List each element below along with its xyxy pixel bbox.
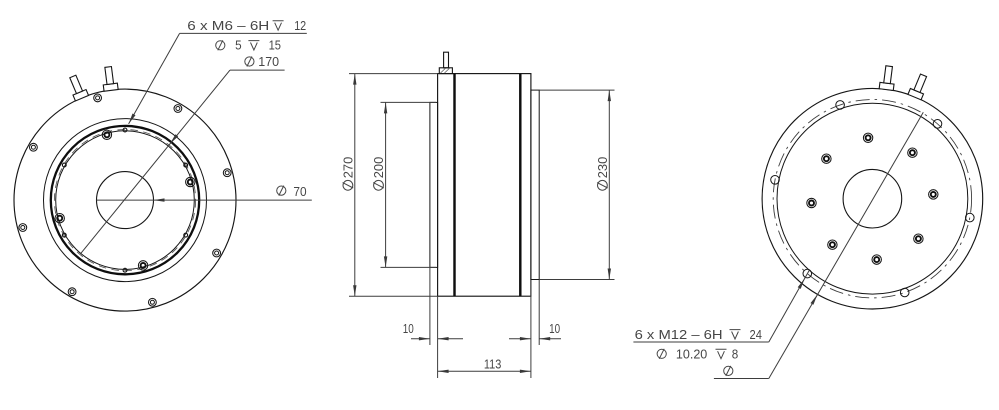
svg-text:10.20: 10.20 [676,346,707,361]
svg-text:5: 5 [235,38,242,53]
left view dashed bolt circle dia 170 [54,130,195,271]
left view stud pin 2 [101,66,118,91]
left view 4 socket head screws [186,177,195,186]
dia230 label [595,157,610,191]
right view outer circle [762,88,983,309]
right view stud pin 2 [908,73,930,100]
svg-text:24: 24 [750,327,762,342]
label dia 170 [245,57,254,66]
dim 113 [438,370,531,372]
right view inner rim circle [777,103,968,294]
svg-text:8: 8 [732,346,739,361]
dia200 label [371,157,386,191]
right view dash-dot bolt circle [773,100,971,298]
svg-text:10: 10 [403,321,414,336]
dim 10 left [429,267,431,345]
leader dia 170 [230,69,285,71]
right view 8 socket head screws [914,234,923,243]
label dia 10.20 depth 8 [657,349,666,358]
side view stud pin [444,52,449,68]
side view flange body dia270 outline [438,74,531,297]
leader M6 holes [180,32,307,34]
side view thick edge left [453,74,455,297]
svg-text:113: 113 [484,356,502,371]
left view stud pin 1 [66,74,88,101]
label dia 5 depth 15 [216,41,225,50]
right view 6 plain through holes M12 [966,213,975,222]
svg-text:200: 200 [371,157,386,179]
svg-text:70: 70 [293,184,306,199]
dim dia200 [385,102,387,267]
right view center hole [843,169,902,228]
dim dia230 [608,90,610,279]
svg-text:270: 270 [341,157,356,179]
left view 6 M6 tapped holes on dashed circle [123,128,127,132]
dim 10 right [530,280,532,378]
side view dia230 disc right [531,90,539,279]
left view 8 flange bolt holes [94,94,102,102]
left view circle dia 200 body edge [44,119,207,282]
dia70 label [277,186,286,195]
svg-text:170: 170 [258,54,279,69]
svg-text:15: 15 [269,38,281,53]
leader M12 holes [633,341,768,343]
dia270 label [341,157,356,191]
dia70 dimension line [97,199,312,201]
label dia bolt circle [724,366,733,375]
svg-text:6 x M6 – 6H: 6 x M6 – 6H [187,18,269,33]
leader bolt circle dia [714,378,769,380]
side view thick edge right [519,74,521,297]
left view inner circle dia 170 [56,131,195,270]
left view thick bearing ring circle [51,126,199,274]
svg-text:230: 230 [595,157,610,179]
left view outer circle (flange OD 270) [14,89,236,311]
left view center hole dia 70 [97,172,154,229]
right view stud pin 1 [879,65,896,90]
side view dia200 overhang left [430,102,438,267]
svg-text:6 x M12 – 6H: 6 x M12 – 6H [635,327,723,342]
dim dia270 [354,74,356,297]
svg-text:10: 10 [549,321,560,336]
svg-text:12: 12 [294,18,306,33]
